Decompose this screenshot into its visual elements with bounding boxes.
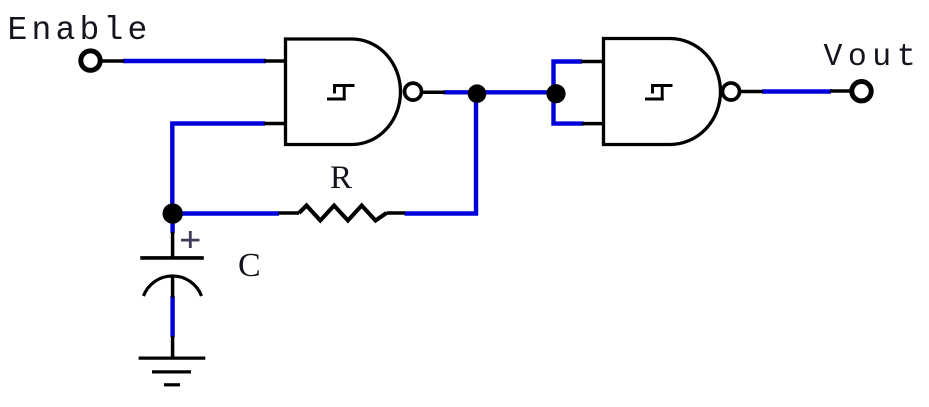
svg-text:C: C (238, 247, 261, 284)
svg-text:Vout: Vout (824, 40, 922, 75)
svg-text:R: R (330, 160, 352, 196)
svg-text:Enable: Enable (8, 12, 152, 49)
